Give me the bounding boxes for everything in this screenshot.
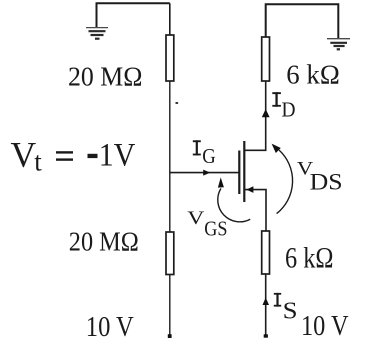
current arrow ID [262, 109, 270, 117]
wire left branch middle (R1 to R2 through gate node) [169, 81, 171, 232]
resistor R1 20 Mohm (top left) [166, 35, 174, 81]
svg-text:6 kΩ: 6 kΩ [286, 60, 340, 90]
wire top-right horizontal (right branch to right ground) [266, 4, 339, 38]
transistor Q1 gate bar [238, 151, 240, 195]
wire top-left horizontal (left ground to left branch) [97, 3, 170, 27]
wire left branch lower (R2 to 10V terminal) [169, 275, 171, 337]
ground (top-right) [327, 39, 350, 50]
wire left branch upper (top to R1) [169, 3, 171, 35]
svg-text:V: V [11, 135, 37, 175]
svg-text:10 V: 10 V [301, 311, 349, 342]
svg-text:1V: 1V [99, 138, 136, 174]
arc VDS (curved arrow source to drain) [277, 150, 293, 214]
wire source lead (channel bar to source down wire) [244, 190, 266, 231]
resistor R4 6 kohm (bottom right) [262, 231, 270, 274]
svg-text:DS: DS [310, 170, 343, 195]
svg-text:20 MΩ: 20 MΩ [69, 227, 139, 257]
node terminal dot (right 10V) [264, 334, 268, 337]
svg-text:6 kΩ: 6 kΩ [285, 242, 334, 275]
stray dot mark [176, 102, 179, 104]
arrowhead VDS [272, 144, 281, 153]
current arrow source (into transistor) [246, 186, 253, 193]
label I_S [274, 293, 281, 307]
arrowhead VGS [218, 177, 224, 187]
svg-text:V: V [187, 207, 205, 228]
current arrow IG [203, 170, 210, 176]
svg-text:D: D [282, 97, 296, 121]
wire drain vertical (R3 to MOSFET drain) [244, 81, 265, 150]
ground (top-left) [86, 28, 108, 39]
svg-text:GS: GS [204, 217, 227, 241]
svg-text:10 V: 10 V [86, 311, 134, 343]
svg-text:20 MΩ: 20 MΩ [68, 62, 143, 92]
label I_D [272, 92, 281, 107]
wire gate (left branch to gate bar) [170, 172, 239, 174]
node terminal dot (left 10V) [168, 334, 172, 338]
resistor R3 6 kohm (top right) [262, 37, 270, 81]
label I_G [193, 140, 201, 155]
resistor R2 20 Mohm (bottom left) [166, 232, 174, 275]
svg-text:G: G [202, 144, 216, 168]
current arrow IS [263, 298, 270, 306]
svg-text:S: S [283, 297, 298, 324]
transistor Q1 channel bar [243, 141, 245, 202]
arc VGS (curved arrow source to gate) [218, 189, 250, 222]
svg-text:t: t [34, 147, 42, 177]
wire right branch lower (R4 to 10V terminal) [265, 274, 267, 336]
